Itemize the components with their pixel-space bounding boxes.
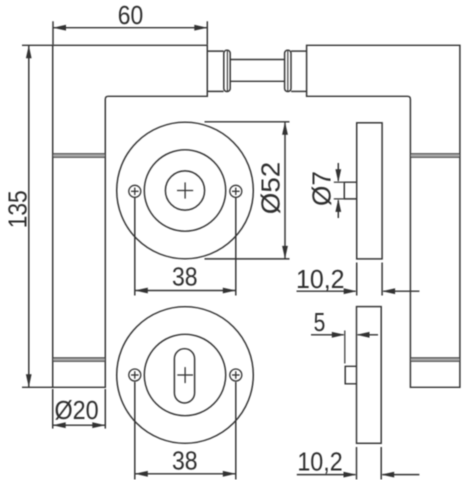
left handle (plan view, L-shaped lever) [53, 45, 208, 387]
lower rosette side view plate [357, 307, 382, 444]
svg-text:5: 5 [314, 307, 326, 337]
dimension 60 line [53, 27, 207, 29]
dimension Ø52 extension lines [205, 121, 290, 123]
dimension 38 upper extension lines [134, 198, 136, 296]
upper rosette side view plate [357, 123, 382, 259]
dimension 5 arrows [311, 334, 344, 336]
left grip upper joint [53, 154, 104, 158]
dimension Ø20 line [53, 424, 106, 426]
upper rosette middle circle [144, 150, 225, 231]
dimension 10,2 upper arrows [297, 290, 356, 292]
left collar ring [224, 50, 230, 91]
lower rosette right screw [230, 369, 242, 381]
lower rosette key cylinder oval [174, 349, 194, 403]
lower rosette side view cylinder bump [345, 366, 356, 384]
right grip upper joint [411, 154, 459, 158]
dimension 10,2 upper extension lines [356, 263, 358, 296]
upper rosette left screw [129, 185, 141, 197]
lower rosette middle circle [144, 334, 225, 415]
right collar ring [285, 50, 291, 91]
dimension 38 upper line [135, 290, 236, 292]
upper rosette spindle boss circle [165, 171, 204, 210]
right handle neck [291, 50, 307, 52]
upper rosette center cross [177, 190, 193, 192]
left grip lower joint [53, 358, 104, 361]
upper rosette right screw [230, 185, 242, 197]
lower rosette center cross [177, 374, 193, 376]
lower rosette left screw [129, 369, 141, 381]
dimension 38 lower line [135, 473, 236, 475]
spindle [230, 59, 284, 61]
dimension 10,2 lower extension lines [356, 447, 358, 480]
svg-text:38: 38 [172, 445, 198, 475]
svg-text:60: 60 [118, 0, 143, 30]
svg-text:Ø52: Ø52 [256, 162, 286, 215]
svg-text:Ø7: Ø7 [307, 171, 337, 206]
svg-text:10,2: 10,2 [297, 447, 342, 477]
dimension Ø52 line [284, 122, 286, 259]
right grip lower joint [411, 358, 459, 361]
svg-text:10,2: 10,2 [296, 264, 345, 294]
dimension 60 extension lines [52, 21, 54, 44]
right handle (plan view, L-shaped lever) [307, 45, 460, 387]
dimension 5 extension line [344, 331, 346, 364]
upper rosette side view boss [344, 182, 356, 199]
dimension 135 line [28, 45, 30, 387]
svg-text:135: 135 [2, 190, 32, 228]
dimension Ø7 arrows [337, 163, 339, 181]
dimension Ø20 extension lines [52, 389, 54, 429]
dimension Ø7 extension lines [334, 181, 344, 183]
dimension 38 lower extension lines [134, 382, 136, 480]
left handle neck [207, 50, 223, 52]
svg-text:Ø20: Ø20 [55, 395, 99, 425]
lower rosette outer circle [117, 307, 254, 444]
svg-text:38: 38 [172, 262, 198, 292]
upper rosette outer circle [117, 122, 254, 259]
dimension 10,2 lower arrows [297, 474, 356, 476]
dimension 135 extension lines [22, 44, 52, 46]
